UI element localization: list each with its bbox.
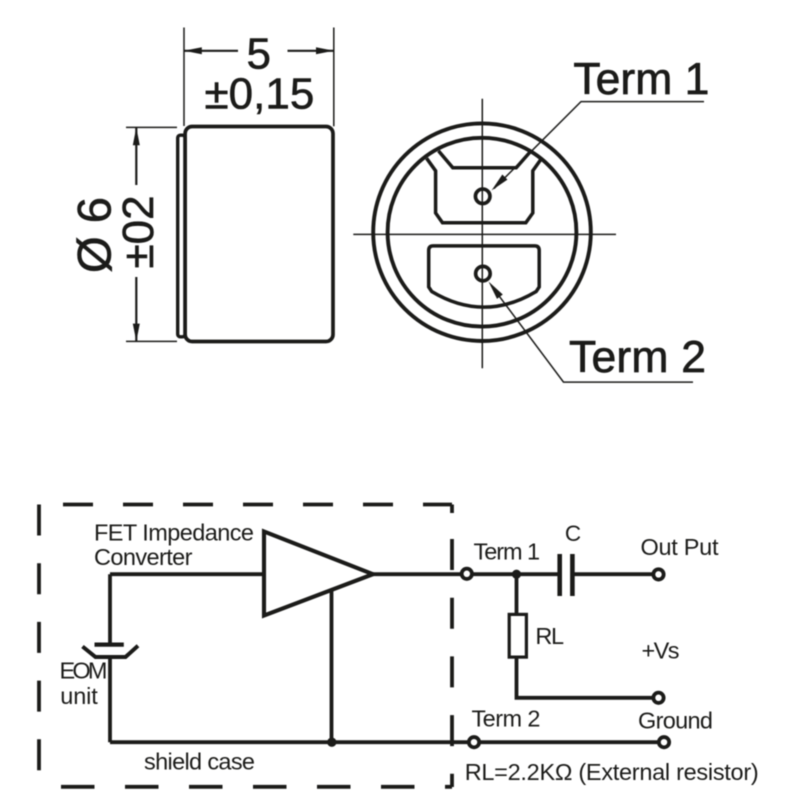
- wire: down to EOM unit: [108, 574, 112, 643]
- dimension extension line (height, top): [126, 126, 177, 128]
- svg-text:Term 2: Term 2: [569, 333, 706, 382]
- terminal pad 2 (bottom, rounded): [429, 246, 540, 307]
- EOM unit electret capsule: [83, 645, 139, 657]
- svg-text:EOM: EOM: [60, 658, 108, 684]
- dimension line width "5": [184, 50, 334, 52]
- leader arrowhead Term 1: [492, 175, 508, 191]
- leader arrowhead Term 2: [489, 282, 503, 299]
- svg-text:FET Impedance: FET Impedance: [94, 519, 254, 545]
- svg-text:+Vs: +Vs: [642, 638, 680, 664]
- svg-text:Out Put: Out Put: [641, 534, 719, 560]
- op-amp FET impedance converter (triangle): [264, 532, 373, 616]
- capacitor C plates: [560, 554, 573, 596]
- dimension line height "Ø6": [135, 127, 137, 341]
- terminal pad 1 (top, notched): [427, 151, 541, 223]
- svg-text:Term 1: Term 1: [573, 55, 709, 104]
- dimension arrow (height, top): [133, 127, 140, 145]
- resistor RL: [509, 614, 526, 657]
- terminal Term 2 (open circle): [469, 737, 479, 747]
- wire: RL to +Vs corner: [517, 656, 659, 698]
- wire: bottom shield rail: [110, 740, 664, 744]
- svg-text:Term 2: Term 2: [472, 706, 541, 732]
- dimension arrow (width, left): [184, 47, 202, 54]
- leader line Term 1: [494, 102, 704, 189]
- svg-text:RL: RL: [535, 623, 564, 649]
- leader line Term 2: [491, 285, 693, 382]
- svg-text:Ground: Ground: [638, 708, 713, 734]
- svg-text:Converter: Converter: [94, 544, 193, 570]
- dimension extension line (width, right): [333, 28, 335, 127]
- terminal +Vs (open circle): [653, 693, 663, 703]
- svg-text:unit: unit: [60, 683, 98, 709]
- dimension arrow (height, bottom): [133, 324, 140, 342]
- svg-text:RL=2.2KΩ (External resistor): RL=2.2KΩ (External resistor): [465, 759, 759, 785]
- wire: EOM down to shield rail: [108, 657, 112, 742]
- wire: capacitor to Out Put: [572, 572, 659, 576]
- svg-text:shield case: shield case: [144, 749, 255, 775]
- dimension extension line (width, left): [183, 28, 185, 127]
- junction node Term1/RL: [512, 570, 521, 579]
- wire: triangle output to Term 1: [373, 572, 558, 576]
- svg-text:C: C: [565, 521, 581, 546]
- wire: triangle to shield rail: [330, 589, 334, 742]
- dimension arrow (width, right): [316, 47, 334, 54]
- microphone body (side view): [185, 127, 333, 342]
- junction dot (shield rail): [327, 738, 336, 747]
- center line vertical: [481, 99, 483, 368]
- dimension extension line (height, bottom): [126, 340, 177, 342]
- solder hole terminal 1: [475, 189, 490, 204]
- svg-text:Term 1: Term 1: [474, 539, 541, 565]
- wire: junction down to RL: [515, 574, 519, 614]
- terminal Term 1 (open circle): [462, 569, 472, 579]
- svg-text:±0,15: ±0,15: [205, 69, 315, 118]
- front cap strip (side view): [178, 135, 185, 337]
- outer case circle: [373, 123, 591, 341]
- terminal Out Put (open circle): [653, 569, 663, 579]
- solder hole terminal 2: [476, 266, 491, 281]
- inner case circle: [388, 138, 577, 327]
- center line horizontal: [353, 233, 616, 235]
- svg-text:±02: ±02: [114, 195, 163, 268]
- shield case dashed box: [39, 505, 452, 788]
- terminal Ground (open circle): [659, 737, 669, 747]
- wire: triangle input from EOM: [110, 572, 264, 576]
